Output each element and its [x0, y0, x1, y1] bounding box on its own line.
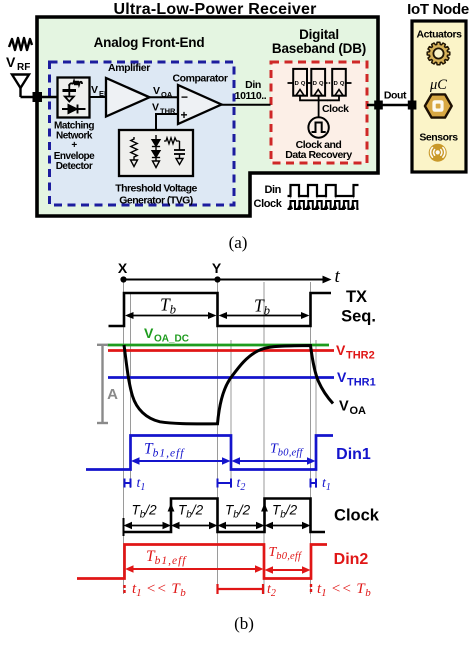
- time axis: [124, 279, 327, 281]
- label Matching Network + Envelope Detector: [54, 121, 95, 173]
- t1 tick marks right (blue): [311, 479, 317, 488]
- resistor R1 (TVG): [131, 137, 137, 160]
- resistor R2 (TVG, horizontal): [164, 138, 180, 144]
- diode D1: [62, 108, 86, 110]
- svg-text:−: −: [181, 90, 188, 104]
- svg-text:t2: t2: [267, 582, 276, 599]
- svg-text:(b): (b): [234, 614, 254, 633]
- FF clock triangles: [296, 90, 304, 96]
- svg-text:+: +: [181, 108, 188, 122]
- svg-text:(a): (a): [229, 233, 248, 252]
- Clock fast waveform: [288, 201, 359, 209]
- VOA curve: [124, 345, 333, 424]
- svg-text:Actuators: Actuators: [417, 29, 463, 41]
- line VOA_DC (green): [108, 344, 330, 347]
- node Dout junction left: [374, 101, 383, 110]
- svg-text:Tb: Tb: [160, 295, 176, 317]
- svg-text:Seq.: Seq.: [341, 308, 376, 326]
- Tb arrow 1: [125, 312, 217, 319]
- svg-text:V: V: [336, 342, 346, 358]
- svg-text:Data Recovery: Data Recovery: [285, 149, 352, 161]
- label Din 10110..: [235, 79, 267, 102]
- svg-text:Detector: Detector: [56, 161, 93, 172]
- amplifier A1: [106, 78, 150, 117]
- label VOA_DC: [144, 325, 189, 345]
- Din digital waveform: [288, 185, 359, 196]
- svg-text:Tb0,eff: Tb0,eff: [270, 442, 304, 459]
- envelope arrow down: [68, 84, 70, 97]
- label Clock (DB): [322, 103, 349, 115]
- t2 tick marks (blue): [218, 479, 232, 488]
- Tb1,eff arrow (blue): [131, 457, 231, 464]
- svg-text:X: X: [118, 260, 128, 276]
- wire comparator output Din: [222, 104, 271, 106]
- svg-text:Q: Q: [340, 81, 345, 87]
- microcontroller hexagon icon: [425, 94, 452, 117]
- label Clock and Data Recovery: [285, 139, 352, 161]
- t1 tick marks left (blue): [125, 479, 131, 488]
- svg-text:A: A: [107, 386, 118, 403]
- svg-text:Din1: Din1: [336, 446, 371, 463]
- svg-text:V: V: [339, 399, 349, 415]
- svg-text:t1 << Tb: t1 << Tb: [317, 581, 371, 599]
- flip-flop FF3: [332, 69, 346, 96]
- svg-text:Tb/2: Tb/2: [132, 503, 158, 521]
- clock bus wires: [300, 96, 339, 101]
- svg-text:RF: RF: [17, 62, 30, 73]
- svg-text:V: V: [6, 54, 16, 70]
- svg-text:Din2: Din2: [334, 551, 369, 568]
- capacitor C1 (TVG): [179, 141, 181, 150]
- Tb0,eff arrow (red): [265, 566, 311, 573]
- dotted alignment lines: [291, 186, 354, 207]
- svg-text:Sensors: Sensors: [419, 132, 458, 144]
- label VED: [91, 84, 110, 98]
- svg-text:Comparator: Comparator: [172, 73, 227, 85]
- wire D input stub FF1: [288, 82, 294, 84]
- Din1 waveform (blue): [86, 436, 333, 470]
- svg-text:Q: Q: [319, 81, 324, 87]
- inductor symbol: [69, 81, 82, 86]
- svg-text:V: V: [337, 369, 347, 385]
- label VRF: [6, 54, 30, 73]
- label Threshold Voltage Generator (TVG): [115, 183, 197, 207]
- capacitor plate bar: [63, 89, 77, 92]
- svg-text:D: D: [295, 81, 299, 87]
- svg-text:IoT Node: IoT Node: [407, 1, 469, 18]
- svg-text:Tb1,eff: Tb1,eff: [146, 548, 187, 567]
- wire FF1 Q to FF2 D: [307, 82, 311, 84]
- wire matching to amplifier: [90, 96, 107, 98]
- svg-text:Threshold Voltage: Threshold Voltage: [115, 183, 197, 195]
- t1 tick left (red): [123, 585, 125, 594]
- Dout wire: [367, 104, 412, 106]
- svg-text:Din: Din: [264, 184, 281, 196]
- svg-text:OA: OA: [161, 90, 173, 99]
- svg-text:t1: t1: [137, 476, 146, 493]
- wire antenna to matching network: [21, 96, 58, 98]
- svg-text:t2: t2: [237, 476, 246, 493]
- clock rising edge up-arrows: [168, 503, 175, 512]
- svg-text:Tb1,eff: Tb1,eff: [144, 441, 185, 460]
- clock source circle: [308, 117, 328, 137]
- svg-text:μC: μC: [429, 77, 447, 93]
- svg-text:D: D: [313, 81, 317, 87]
- svg-text:Tb/2: Tb/2: [272, 503, 298, 521]
- svg-text:+: +: [71, 140, 77, 151]
- svg-text:Clock: Clock: [254, 198, 283, 210]
- svg-text:Analog Front-End: Analog Front-End: [94, 35, 205, 50]
- label VTHR: [152, 102, 176, 116]
- svg-text:V: V: [144, 325, 154, 341]
- node Dout junction right: [408, 101, 417, 110]
- flip-flop FF2: [311, 69, 325, 96]
- svg-text:Generator (TVG): Generator (TVG): [119, 195, 192, 207]
- amplitude bracket A: [97, 345, 108, 423]
- TX Seq waveform: [109, 293, 332, 326]
- matching network / envelope detector box: [58, 78, 90, 118]
- svg-text:Dout: Dout: [384, 90, 407, 102]
- svg-text:t: t: [335, 266, 341, 287]
- svg-text:THR1: THR1: [347, 377, 376, 389]
- svg-text:Tb0,eff: Tb0,eff: [269, 545, 303, 562]
- svg-text:Amplifier: Amplifier: [108, 62, 150, 74]
- vertical reference gridlines: [124, 282, 317, 594]
- svg-text:Clock: Clock: [334, 507, 380, 525]
- svg-text:Baseband (DB): Baseband (DB): [272, 41, 366, 56]
- svg-text:Q: Q: [301, 81, 306, 87]
- Din2 waveform (red): [77, 545, 327, 579]
- node junction on box wall: [33, 93, 42, 102]
- svg-text:OA_DC: OA_DC: [154, 334, 189, 345]
- receiver outer box: [37, 17, 378, 216]
- Tb arrow 2: [219, 312, 310, 319]
- TVG box: [119, 130, 193, 176]
- wire amp to comparator: [150, 96, 179, 98]
- FF D/Q pin labels: [295, 81, 345, 87]
- Tb1,eff arrow (red): [125, 565, 264, 572]
- label VOA: [153, 85, 173, 99]
- svg-text:TX: TX: [346, 288, 367, 306]
- Tb0,eff arrow (blue): [232, 457, 316, 464]
- DB dashed box: [271, 62, 367, 163]
- svg-text:D: D: [334, 81, 338, 87]
- svg-text:THR2: THR2: [346, 350, 375, 362]
- svg-text:Tb/2: Tb/2: [225, 503, 251, 521]
- svg-text:V: V: [91, 84, 98, 96]
- line VTHR2 (red): [108, 349, 334, 352]
- flip-flop FF1: [293, 69, 307, 96]
- label VOA (curve): [339, 399, 366, 418]
- svg-text:Tb: Tb: [254, 296, 270, 318]
- Tb/2 labels: [132, 503, 298, 521]
- svg-text:10110..: 10110..: [235, 90, 267, 102]
- comparator U1: [178, 85, 222, 124]
- tick at start of clock measurements: [123, 518, 125, 536]
- svg-text:OA: OA: [350, 405, 367, 417]
- svg-text:Y: Y: [212, 260, 222, 276]
- svg-text:V: V: [153, 85, 160, 97]
- label VTHR1: [337, 369, 376, 389]
- line VTHR1 (blue): [108, 376, 334, 379]
- clock rising-edge arrowheads: [288, 203, 356, 209]
- svg-text:V: V: [152, 102, 159, 114]
- svg-text:Clock: Clock: [322, 103, 349, 115]
- t2 measure (red): [218, 584, 264, 594]
- pulse glyph inside clock circle: [312, 123, 326, 133]
- Tb/2 arrows: [124, 522, 311, 529]
- svg-text:Tb/2: Tb/2: [178, 503, 204, 521]
- svg-text:t1: t1: [322, 476, 331, 493]
- antenna: [12, 75, 29, 89]
- svg-text:t1 << Tb: t1 << Tb: [132, 581, 186, 599]
- Clock waveform (b): [124, 499, 326, 533]
- wire VTHR from TVG to comparator +: [156, 114, 178, 130]
- diodes D2 D3 (TVG): [155, 135, 157, 161]
- wire FF3 Q output stub: [346, 82, 352, 84]
- IoT Node box: [412, 21, 466, 172]
- label VTHR2: [336, 342, 375, 362]
- AFE dashed box: [50, 62, 235, 205]
- dots between FF2 and FF3: [326, 82, 330, 84]
- t1 tick right (red): [310, 584, 312, 594]
- svg-text:Digital: Digital: [299, 27, 339, 42]
- RF wave squiggle: [9, 38, 32, 50]
- actuator gear icon: [427, 42, 450, 65]
- sensor radio icon: [429, 144, 447, 162]
